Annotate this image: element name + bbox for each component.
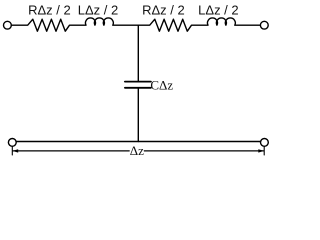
svg-text:LΔz / 2: LΔz / 2 bbox=[198, 2, 238, 17]
svg-text:RΔz / 2: RΔz / 2 bbox=[28, 2, 71, 17]
svg-text:CΔz: CΔz bbox=[150, 78, 173, 93]
svg-text:Δz: Δz bbox=[130, 143, 144, 158]
svg-text:LΔz / 2: LΔz / 2 bbox=[78, 2, 118, 17]
svg-text:RΔz / 2: RΔz / 2 bbox=[142, 2, 185, 17]
